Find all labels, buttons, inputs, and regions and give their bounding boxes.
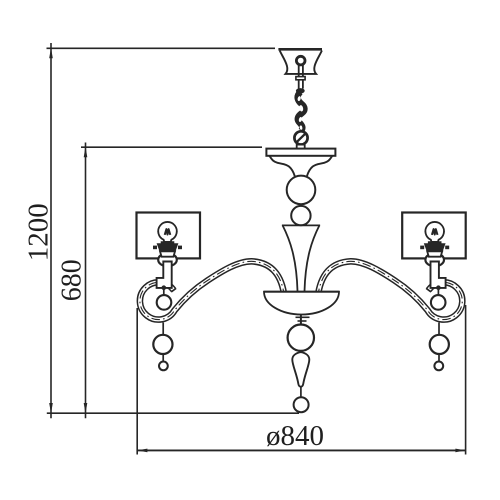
teardrop	[292, 352, 309, 387]
bowl connector stem	[300, 314, 302, 324]
dimension extension bottom	[47, 412, 299, 414]
right arm tube outer	[318, 261, 463, 319]
left shade sphere	[158, 253, 177, 266]
left arm tube inner white	[140, 261, 285, 319]
right arm tip end cap	[426, 288, 431, 292]
canopy top bar	[278, 48, 322, 51]
left loop ball stem	[163, 288, 165, 295]
arrow up 1200	[49, 48, 53, 59]
dimension line 1200 vertical	[50, 43, 52, 418]
stem below ring	[298, 65, 300, 89]
arrow down 1200	[49, 403, 53, 414]
left drop small ball	[159, 362, 168, 371]
taper column right side	[305, 225, 320, 291]
funnel left	[270, 156, 295, 176]
left socket tabs	[153, 246, 157, 250]
chain link hole 2	[299, 105, 304, 112]
left arm tube outer	[140, 261, 285, 319]
svg-text:ø840: ø840	[266, 420, 324, 452]
left arm tip end cap	[171, 288, 176, 292]
right loop ball	[431, 295, 446, 310]
canopy bell	[280, 51, 322, 74]
svg-text:680: 680	[57, 259, 88, 301]
dimension extension mid (680)	[81, 146, 262, 148]
left bracket knob	[162, 285, 167, 290]
right bracket	[431, 262, 446, 288]
hook ring bar	[296, 133, 306, 142]
left bulb filament W	[165, 229, 171, 235]
big ball	[287, 176, 316, 205]
right shade sphere	[425, 253, 444, 266]
arrow down 680	[84, 403, 88, 414]
funnel right	[307, 156, 332, 176]
bottom ball	[294, 397, 309, 412]
chain twisted links	[298, 92, 305, 131]
right arm tube inner white	[318, 261, 463, 319]
right loop ball stem	[437, 288, 439, 295]
left loop ball	[157, 295, 172, 310]
top plate	[266, 149, 335, 156]
center ball below bowl	[288, 325, 314, 351]
right bracket knob	[436, 285, 441, 290]
right bulb socket	[424, 241, 446, 252]
bowl rim	[264, 291, 339, 293]
right bulb glass	[425, 222, 444, 242]
left bulb socket	[157, 241, 179, 252]
left drop stem below loop	[162, 323, 164, 336]
dimension line 840	[137, 449, 465, 451]
right drop small ball	[434, 362, 443, 371]
left shade box	[137, 213, 201, 259]
arrow right 840	[455, 449, 466, 453]
arrow up 680	[84, 147, 88, 158]
extension line left (840)	[136, 308, 138, 455]
right bulb filament W	[432, 229, 438, 235]
left bulb glass	[158, 222, 177, 242]
right drop stem below loop	[438, 323, 440, 336]
left socket collar	[160, 251, 175, 256]
svg-text:1200: 1200	[23, 203, 55, 261]
bowl connector bar 1	[296, 316, 310, 318]
left bracket	[157, 262, 172, 288]
right socket collar	[427, 251, 442, 256]
right shade box	[402, 213, 466, 259]
teardrop stem	[300, 387, 302, 398]
chain link hole 1	[297, 96, 301, 102]
arrow left 840	[137, 449, 148, 453]
small ball	[291, 206, 310, 225]
left drop lower stem	[162, 354, 164, 361]
dimension line 680 vertical	[85, 143, 87, 419]
right arm centerline	[318, 261, 463, 319]
hook ring	[294, 131, 307, 144]
canopy ring	[296, 56, 305, 65]
extension line right (840)	[465, 305, 467, 455]
stem collar	[296, 77, 305, 80]
bowl connector bar 2	[298, 320, 307, 322]
taper column top plate	[282, 224, 320, 226]
right drop lower stem	[438, 354, 440, 361]
chain link hole 3	[298, 117, 302, 123]
chain knot	[296, 88, 305, 93]
bowl	[264, 292, 339, 315]
left arm centerline	[140, 261, 285, 319]
chain link hole 4	[299, 125, 302, 130]
right socket tabs	[420, 246, 424, 250]
dimension extension top (1200)	[47, 47, 276, 49]
left drop ball	[153, 335, 172, 354]
plate collar	[297, 145, 305, 149]
taper column left side	[283, 225, 298, 291]
right drop ball	[430, 335, 449, 354]
